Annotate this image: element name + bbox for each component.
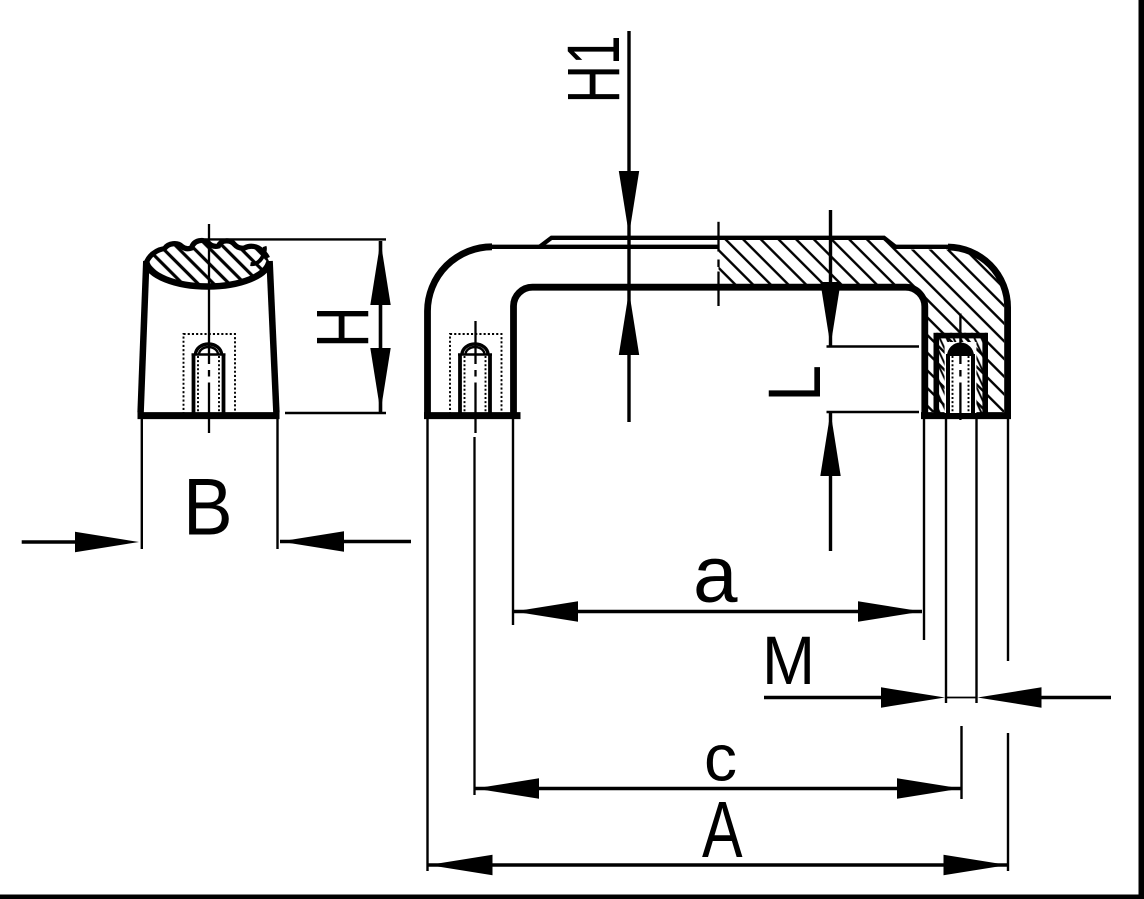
svg-text:a: a xyxy=(693,530,738,619)
svg-text:B: B xyxy=(183,463,233,553)
svg-text:c: c xyxy=(704,721,737,795)
svg-text:A: A xyxy=(702,786,743,875)
svg-text:H: H xyxy=(302,306,385,348)
svg-text:H1: H1 xyxy=(552,35,635,103)
svg-text:L: L xyxy=(753,365,836,402)
svg-text:M: M xyxy=(762,623,815,700)
